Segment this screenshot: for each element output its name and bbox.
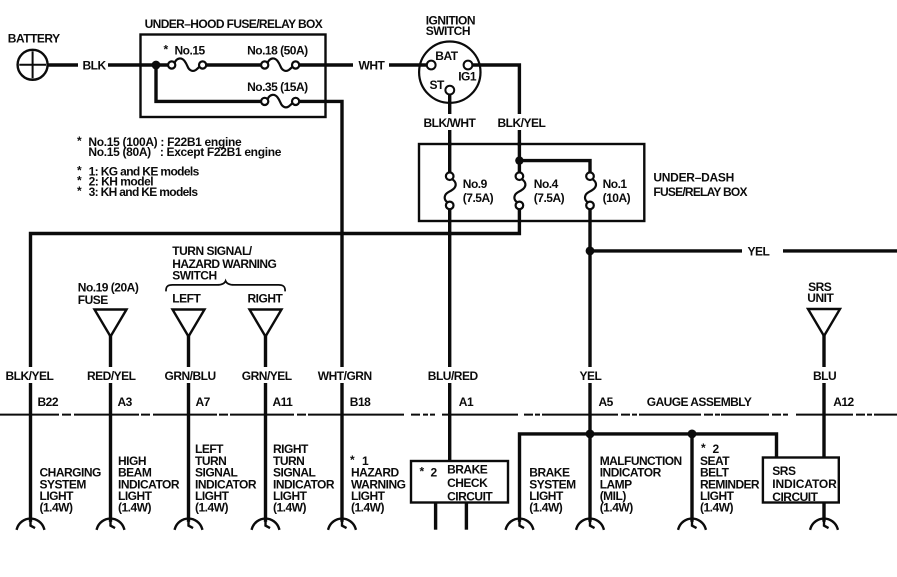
svg-text:CHECK: CHECK — [447, 476, 488, 490]
ignition terminal BAT — [427, 61, 436, 70]
svg-text:GRN/BLU: GRN/BLU — [165, 369, 216, 383]
bulb malfunction indicator lamp — [576, 518, 603, 528]
wire fuse No.18 to ignition BAT — [299, 63, 427, 66]
svg-text:IG1: IG1 — [458, 70, 477, 84]
label high beam indicator light — [118, 454, 180, 515]
bulb hazard warning light — [328, 518, 355, 528]
svg-text:A1: A1 — [459, 395, 474, 409]
label BLK on battery wire — [78, 57, 108, 74]
label left turn signal indicator light — [195, 442, 257, 515]
svg-text:INDICATOR: INDICATOR — [772, 477, 837, 491]
SRS unit triangle — [808, 309, 840, 336]
bulb srs indicator — [810, 518, 837, 528]
svg-text:A12: A12 — [833, 395, 854, 409]
svg-text:*: * — [164, 43, 169, 57]
svg-text:B18: B18 — [350, 395, 371, 409]
svg-text:(1.4W): (1.4W) — [600, 501, 634, 515]
svg-text:CIRCUIT: CIRCUIT — [447, 490, 493, 504]
svg-text:(1.4W): (1.4W) — [118, 501, 152, 515]
fuse No.1 — [585, 172, 596, 209]
RIGHT switch triangle — [250, 310, 282, 337]
svg-text:RIGHT: RIGHT — [248, 292, 284, 306]
wire fuse No.19 triangle to A3 high beam light (RED/YEL) — [109, 336, 112, 520]
wire fuse No.4 out to bus then down to B22 charging light (BLK/YEL) — [31, 209, 520, 520]
brake check circuit box — [411, 461, 508, 503]
wire RIGHT switch triangle to A11 (GRN/YEL) — [264, 336, 267, 520]
svg-text:(1.4W): (1.4W) — [273, 501, 307, 515]
svg-text:A7: A7 — [196, 395, 211, 409]
svg-text:BLU: BLU — [813, 369, 836, 383]
svg-text:(1.4W): (1.4W) — [529, 501, 563, 515]
svg-text:BRAKE: BRAKE — [447, 463, 488, 477]
wire YEL branch to right edge — [590, 249, 897, 252]
svg-text:ST: ST — [430, 78, 446, 92]
wire fuse No.9 out down to brake check box (A1, BLU/RED) — [448, 209, 451, 461]
wire LEFT switch triangle to A7 (GRN/BLU) — [187, 336, 190, 520]
svg-text:BATTERY: BATTERY — [8, 31, 60, 45]
label RED/YEL A3 — [84, 367, 139, 383]
label UNDER-DASH FUSE/RELAY BOX — [653, 171, 747, 199]
svg-text:BLK: BLK — [83, 58, 107, 72]
svg-text:SRS: SRS — [772, 464, 796, 478]
svg-text:A5: A5 — [599, 395, 614, 409]
junction dot under-dash branch — [515, 156, 523, 164]
junction dot gauge bus seat belt — [688, 430, 697, 439]
label YEL on right branch wire — [742, 243, 783, 260]
label BLU A12 — [810, 367, 838, 383]
svg-text:(10A): (10A) — [603, 191, 631, 205]
svg-text:3: KH and KE models: 3: KH and KE models — [89, 185, 199, 199]
label srs indicator circuit — [772, 464, 837, 504]
wire branch junction to fuse No.1 — [519, 161, 590, 173]
svg-text:*: * — [77, 134, 82, 148]
label SRS UNIT — [807, 280, 834, 305]
fuse No.9 — [445, 172, 456, 209]
wire gauge assembly bus — [520, 434, 777, 520]
label charging system light — [40, 466, 101, 515]
label brake check circuit — [420, 463, 494, 504]
fuse No.35 — [261, 95, 299, 107]
label fuse No.1 — [603, 177, 631, 205]
svg-text:RED/YEL: RED/YEL — [87, 369, 136, 383]
under-dash fuse/relay box — [419, 144, 644, 221]
under-hood fuse/relay box — [141, 35, 326, 118]
svg-text:No.1: No.1 — [603, 177, 628, 191]
label BLK/YEL ignition — [494, 114, 546, 130]
label GRN/BLU A7 — [162, 367, 217, 383]
label right turn signal indicator light — [273, 442, 335, 515]
ignition switch body — [419, 41, 480, 102]
svg-text:BLU/RED: BLU/RED — [428, 369, 479, 383]
label brake system light — [529, 466, 576, 515]
svg-text:BLK/YEL: BLK/YEL — [6, 369, 54, 383]
CONNECTOR-DASH-LINE — [0, 414, 897, 416]
svg-text:YEL: YEL — [748, 245, 770, 259]
label malfunction indicator lamp — [600, 454, 682, 515]
svg-text:No.15: No.15 — [175, 44, 206, 58]
bulb right turn signal indicator light — [252, 518, 279, 528]
bulb high beam indicator light — [97, 518, 124, 528]
wire SRS indicator box to bulb — [822, 503, 825, 521]
label WHT/GRN B18 — [315, 367, 372, 383]
label fuse No.4 — [534, 177, 565, 205]
fuse No.18 — [261, 58, 299, 70]
LEFT switch triangle — [173, 310, 205, 337]
label fuse No.9 — [463, 177, 494, 205]
fuse No.19 triangle — [95, 310, 127, 337]
svg-text:FUSE/RELAY BOX: FUSE/RELAY BOX — [653, 185, 747, 199]
svg-text:(1.4W): (1.4W) — [195, 501, 229, 515]
note model codes — [77, 163, 200, 199]
svg-text:WHT: WHT — [359, 58, 386, 72]
label fuse No.15 — [164, 43, 206, 58]
svg-text:A3: A3 — [118, 395, 133, 409]
svg-text:No.4: No.4 — [534, 177, 559, 191]
junction dot main feed — [152, 61, 161, 70]
wire ignition IG1 to under-dash box — [472, 65, 519, 144]
ignition terminal ST — [445, 86, 454, 95]
wire fuse No.1 out down through A5 to MIL bulb (YEL) — [588, 209, 591, 520]
WIRES-LAYER — [31, 65, 897, 528]
svg-text:BAT: BAT — [435, 49, 458, 63]
svg-text:B22: B22 — [38, 395, 59, 409]
label BLU/RED A1 — [425, 367, 478, 383]
switch brace — [166, 281, 285, 291]
fuse No.4 — [514, 172, 525, 209]
label WHT on ignition feed wire — [353, 57, 389, 74]
svg-text:WHT/GRN: WHT/GRN — [318, 369, 372, 383]
svg-text:2: 2 — [431, 465, 438, 479]
battery — [18, 50, 48, 80]
connector line dash-dot segments — [0, 414, 897, 416]
label GRN/YEL A11 — [239, 367, 294, 383]
wire brake check box output right — [465, 503, 468, 529]
svg-text:No.35 (15A): No.35 (15A) — [247, 80, 308, 94]
wire under-dash box top to fuse No.4 — [518, 144, 521, 172]
bulb brake system light — [506, 518, 533, 528]
wire battery to under-hood box — [48, 63, 169, 66]
label IGNITION SWITCH — [426, 13, 475, 38]
fuse No.15 — [168, 58, 206, 70]
svg-text:BLK/WHT: BLK/WHT — [424, 116, 477, 130]
bulb left turn signal indicator light — [175, 518, 202, 528]
ignition terminal IG1 — [464, 61, 473, 70]
svg-text:SWITCH: SWITCH — [172, 269, 216, 283]
label BLK/WHT — [421, 114, 477, 130]
label YEL A5 — [576, 367, 604, 383]
svg-text:No.9: No.9 — [463, 177, 488, 191]
bulb charging system light — [17, 518, 44, 528]
svg-text:No.15 (80A) : Except F22B1 e: No.15 (80A) : Except F22B1 engine — [88, 145, 281, 159]
svg-text:No.18 (50A): No.18 (50A) — [247, 44, 308, 58]
svg-text:UNDER–DASH: UNDER–DASH — [653, 171, 733, 185]
junction dot gauge bus A5 — [586, 430, 595, 439]
svg-text:GRN/YEL: GRN/YEL — [242, 369, 292, 383]
svg-text:UNDER–HOOD FUSE/RELAY BOX: UNDER–HOOD FUSE/RELAY BOX — [145, 17, 323, 31]
svg-text:(1.4W): (1.4W) — [700, 501, 734, 515]
svg-text:SWITCH: SWITCH — [426, 24, 470, 38]
svg-text:CIRCUIT: CIRCUIT — [772, 490, 818, 504]
wire fuse No.15 to fuse No.18 — [206, 63, 261, 66]
junction dot YEL branch — [586, 247, 595, 256]
svg-text:(1.4W): (1.4W) — [351, 501, 385, 515]
wire brake check box output left — [434, 503, 437, 529]
svg-text:(1.4W): (1.4W) — [40, 501, 74, 515]
label seat belt reminder light — [700, 441, 760, 515]
svg-text:BLK/YEL: BLK/YEL — [498, 116, 546, 130]
bulb seat belt reminder light — [678, 518, 705, 528]
wire under-dash box top to fuse No.9 — [448, 144, 451, 172]
wire fuse No.35 to corner then down to B18 hazard light — [299, 101, 342, 520]
svg-text:LEFT: LEFT — [172, 292, 201, 306]
wire gauge bus to seat belt reminder bulb — [690, 434, 693, 520]
svg-text:GAUGE ASSEMBLY: GAUGE ASSEMBLY — [647, 395, 752, 409]
srs indicator circuit box — [763, 458, 839, 503]
wire ignition ST down to under-dash box — [448, 95, 451, 145]
label hazard warning light — [350, 453, 406, 515]
svg-text:UNIT: UNIT — [807, 291, 834, 305]
label TURN SIGNAL/HAZARD WARNING SWITCH — [172, 244, 276, 282]
wire SRS unit triangle to A12 then SRS indicator box (BLU) — [822, 336, 825, 458]
svg-text:FUSE: FUSE — [78, 293, 109, 307]
wire junction down to fuse No.35 row — [156, 65, 261, 101]
svg-text:YEL: YEL — [580, 369, 602, 383]
svg-text:A11: A11 — [273, 395, 294, 409]
svg-text:*: * — [77, 184, 82, 198]
svg-text:(7.5A): (7.5A) — [534, 191, 565, 205]
label No.19 fuse — [78, 281, 139, 307]
label BLK/YEL B22 — [3, 367, 58, 383]
svg-text:(7.5A): (7.5A) — [463, 191, 494, 205]
note No.15 engines — [77, 134, 282, 159]
